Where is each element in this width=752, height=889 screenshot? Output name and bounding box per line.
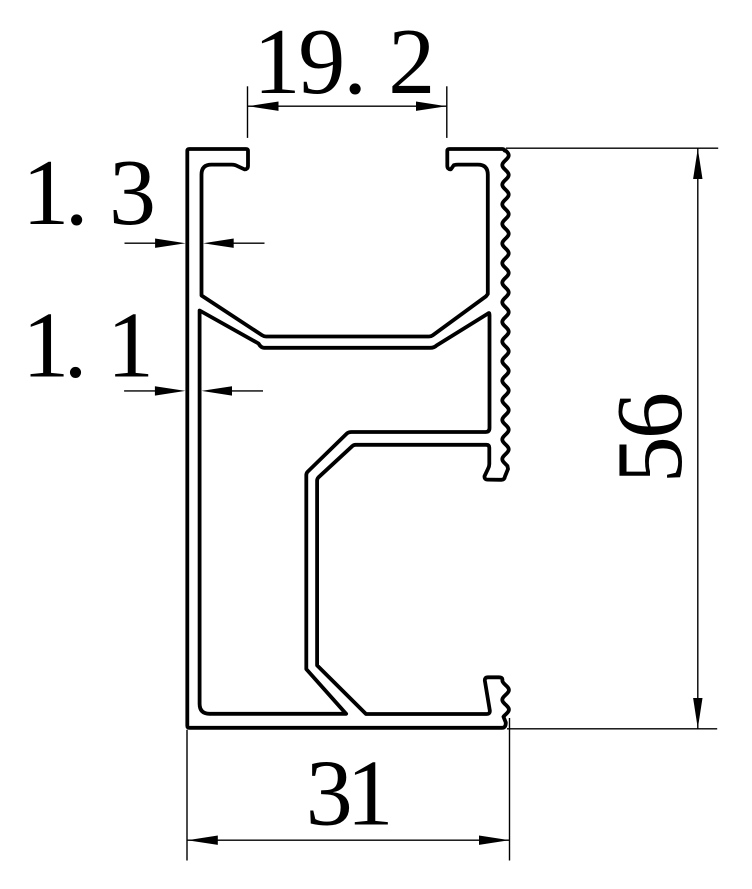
svg-text:19.2: 19.2 — [254, 10, 436, 114]
svg-text:56: 56 — [598, 392, 702, 483]
svg-text:31: 31 — [306, 742, 394, 846]
